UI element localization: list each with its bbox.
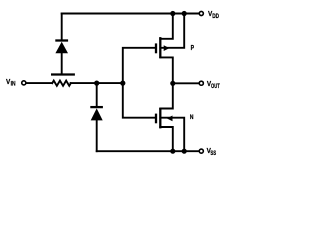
wire resistor to gate node: [71, 82, 123, 84]
wire VOUT branch: [173, 82, 199, 84]
transistor N body arrow: [167, 116, 173, 122]
wire input from VIN terminal to resistor: [27, 82, 52, 84]
junction dot VSS rail left: [170, 149, 175, 154]
transistor P gate bar: [155, 43, 157, 53]
diode D1 cathode bar: [55, 39, 68, 41]
wire PMOS drain to NMOS drain: [160, 57, 173, 108]
svg-text:N: N: [190, 114, 194, 121]
junction dot input node at resistor/D2: [94, 81, 99, 86]
terminal VOUT: [199, 81, 203, 85]
junction dot gate node: [120, 81, 125, 86]
terminal VSS: [199, 149, 203, 153]
resistor R1: [52, 81, 71, 86]
transistor P body arrow: [164, 45, 170, 51]
terminal VDD: [199, 11, 203, 15]
transistor N channel bar: [159, 108, 161, 129]
wire NMOS source stub to VSS: [160, 127, 173, 151]
diode D1 triangle: [55, 42, 68, 53]
wire top rail VDD: [62, 13, 199, 15]
wire D1 anode lead: [61, 53, 63, 73]
diode D2 cathode bar: [90, 106, 103, 108]
terminal VIN: [22, 81, 26, 85]
svg-text:DD: DD: [212, 14, 219, 21]
wire D2 lower lead: [96, 120, 98, 151]
wire PMOS source stub to VDD: [160, 14, 173, 39]
diode D2 triangle: [91, 108, 103, 120]
wire bottom rail VSS: [97, 150, 199, 152]
wire D1 upper lead: [61, 14, 63, 40]
svg-text:IN: IN: [11, 81, 16, 88]
junction dot VDD rail left: [170, 11, 175, 16]
wire D2 upper lead: [96, 83, 98, 106]
transistor N gate bar: [155, 114, 157, 124]
svg-text:SS: SS: [210, 150, 216, 157]
diode D1 anode distributed bar: [51, 73, 75, 75]
junction dot VOUT node: [170, 81, 175, 86]
wire gate line with PMOS and NMOS gate leads: [123, 48, 155, 118]
svg-text:P: P: [191, 44, 195, 52]
wire PMOS body lead to VDD: [161, 14, 184, 48]
junction dot VSS rail right: [182, 149, 187, 154]
svg-text:OUT: OUT: [211, 83, 220, 90]
wire NMOS body lead to VSS: [161, 118, 184, 152]
transistor P channel bar: [159, 37, 161, 58]
junction dot VDD rail right: [182, 11, 187, 16]
